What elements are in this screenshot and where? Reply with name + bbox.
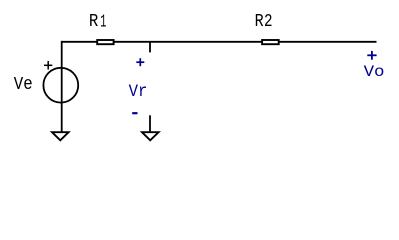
ground (left) — [52, 132, 69, 140]
svg-text:2: 2 — [264, 10, 273, 32]
minus sign node Vr — [132, 112, 137, 114]
ground (right) — [142, 132, 159, 140]
resistor R1 — [97, 40, 113, 44]
svg-text:1: 1 — [100, 10, 106, 32]
svg-text:Ve: Ve — [14, 75, 33, 95]
svg-text:Vr: Vr — [129, 82, 148, 102]
plus sign node Vr — [136, 58, 144, 66]
wire source vertical — [61, 41, 63, 132]
voltage source Ve — [43, 68, 78, 103]
wire main horizontal — [62, 41, 377, 43]
svg-text:R: R — [255, 10, 264, 32]
svg-text:Vo: Vo — [364, 63, 385, 81]
svg-text:R: R — [89, 10, 98, 32]
node Vr tick wire — [149, 42, 151, 52]
resistor R2 — [262, 40, 279, 44]
wire ground stem (right) — [149, 115, 151, 132]
plus sign node Vo — [367, 51, 376, 60]
plus sign of source — [44, 61, 52, 70]
